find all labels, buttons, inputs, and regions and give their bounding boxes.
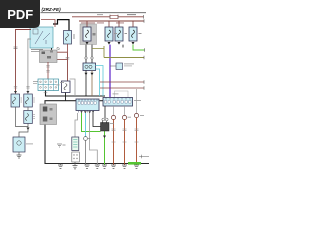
sensor wire 2 (red, from box R) <box>122 106 127 168</box>
ground below sensor <box>17 152 22 158</box>
fuse on rail 1 <box>110 15 118 20</box>
ground under cyan wire <box>85 165 90 168</box>
wire: VSV B to VSV C <box>27 107 29 111</box>
wire: black distributor output to ECM <box>85 71 87 97</box>
gray stub wire to right edge <box>139 156 149 158</box>
wire: red long vertical to igniter <box>67 52 69 81</box>
VSV C <box>24 111 33 124</box>
connector ticks <box>46 66 49 73</box>
green bar bottom right <box>128 162 141 165</box>
injector no.1 <box>83 27 91 41</box>
ECM top edge segment between connectors <box>100 100 104 102</box>
distributor (pickup coils) <box>83 63 96 71</box>
wire: black second distributor lead <box>91 45 93 63</box>
wire: brown distributor output to ECM <box>91 71 93 97</box>
wire: cyan distributor signals to ECM <box>96 66 104 97</box>
svg-text:PDF: PDF <box>7 7 33 22</box>
sensor wire 1 (red, from box R) <box>111 106 116 168</box>
wire: red feed from relay to left vertical <box>16 30 32 94</box>
relay (circuit opening relay) behind PDF badge <box>30 27 53 48</box>
wire: red drop into junction block <box>50 52 52 56</box>
end connector rail 1 <box>143 15 145 19</box>
junction connector cluster <box>101 121 110 132</box>
label beside resistor <box>74 34 75 39</box>
wire: relay output to junction block <box>51 48 53 50</box>
ECM connector box L <box>76 99 99 113</box>
VSV B <box>24 94 33 107</box>
junction block (gray connector) below relay <box>40 50 58 63</box>
wire: red from resistor down <box>67 44 69 52</box>
wire: black igniter to ECM <box>65 93 67 101</box>
misc label dashes <box>60 81 64 84</box>
injector no.2 <box>105 27 113 41</box>
wire: stub box R to cluster <box>104 106 106 118</box>
connector ticks above VSV boxes <box>14 87 30 89</box>
injector labels <box>93 33 96 36</box>
relay label text <box>31 49 43 52</box>
label text beside gray wire <box>33 80 38 83</box>
connector tick on red wire <box>14 47 18 49</box>
end connector olive <box>143 56 145 60</box>
injector no.4 <box>129 27 137 41</box>
connector ticks near relay output <box>57 47 60 50</box>
sensor wire 3 (red, right) <box>134 89 139 168</box>
page background <box>0 0 149 198</box>
end connector rail 2 <box>143 19 145 23</box>
ground glyph inside ECM <box>57 144 66 147</box>
wire: black from check connector down to ECM bus <box>46 91 106 97</box>
wire: green A from box L to ground <box>82 113 101 132</box>
pin marks beside VSV boxes <box>21 98 35 119</box>
red horizontal wire to right edge (1) <box>100 81 144 83</box>
gray patch (injector no.1 connector shading) <box>80 24 97 45</box>
ECM connector box R <box>103 98 133 107</box>
wire: green injector no.4 stub <box>133 45 145 50</box>
wire: to ground below junction box <box>74 162 76 166</box>
connector circles on distributor leads <box>85 57 87 59</box>
ground green A <box>102 165 107 168</box>
DLC stub on purple wire <box>110 63 123 70</box>
igniter <box>62 81 71 93</box>
igniter label <box>56 84 60 87</box>
wire: red link from junction block to red vertical <box>57 59 68 61</box>
wire: red from junction block to check connector <box>47 62 49 79</box>
outline frame above box R <box>115 91 129 98</box>
red horizontal wire to right edge (2) <box>100 87 144 89</box>
olive horizontal rail to right edge <box>104 57 144 59</box>
wire: gray from box L to oxygen sensor junction <box>75 113 78 137</box>
PDF badge <box>0 0 40 28</box>
wire: gray continuation to ground <box>85 140 87 165</box>
connector tick <box>66 58 70 60</box>
wire: VSV A bottom to junction <box>16 107 29 127</box>
label beside sensor <box>26 143 33 146</box>
connector circles above cluster <box>102 118 105 121</box>
resistor (solenoid resistor) <box>64 31 72 45</box>
injector no.3 <box>115 27 123 41</box>
junction connector block on ECM left edge <box>40 104 57 125</box>
wire: cyan from box L with connector circle <box>85 113 87 137</box>
connector arrows below injectors <box>86 42 89 45</box>
wire: purple injector no.2 to ECM <box>109 45 111 97</box>
wire: gray from box L jog to ground <box>90 113 98 165</box>
junction box inside ECM <box>72 137 80 162</box>
connector arrows above VSV boxes <box>14 91 29 94</box>
red feed from badge corner to relay <box>41 20 55 28</box>
connector arrow on wire <box>27 128 30 131</box>
VSV A (vacuum switching valve) <box>11 94 20 107</box>
label above rail 2 <box>81 22 95 25</box>
label right of DLC <box>124 63 134 66</box>
title rule <box>41 11 147 14</box>
check connector (diagnostic) <box>38 79 59 91</box>
red power rail 1 (top) <box>72 16 144 18</box>
wire: gray from igniter down to oxygen sensor junction <box>70 79 76 96</box>
svg-text:(2RZ-FE): (2RZ-FE) <box>42 7 62 12</box>
wire: red horizontal junction under relay <box>51 51 68 53</box>
wire: black loop from relay over to resistor <box>53 20 69 31</box>
label above rail 1 <box>127 13 136 16</box>
injector stub wires from rail 2 <box>87 21 133 27</box>
connector ticks <box>44 92 48 94</box>
sensor (bottom-left component) <box>13 137 25 152</box>
ground under gray jog wire <box>95 165 100 168</box>
red power rail 2 (injector supply) <box>79 20 144 22</box>
ECM outline (engine control module) <box>45 101 149 164</box>
wire: olive injector no.3 loop to olive rail <box>103 46 105 58</box>
ground below junction box <box>73 166 78 169</box>
wire: black injector no.1 to distributor <box>85 45 87 63</box>
ground under ECM left area <box>58 164 63 169</box>
wire: gray feed from relay to left vertical <box>28 39 31 94</box>
wire: VSV C bottom to sensor box <box>19 124 28 138</box>
wire: black from box L to junction cluster <box>93 113 101 127</box>
